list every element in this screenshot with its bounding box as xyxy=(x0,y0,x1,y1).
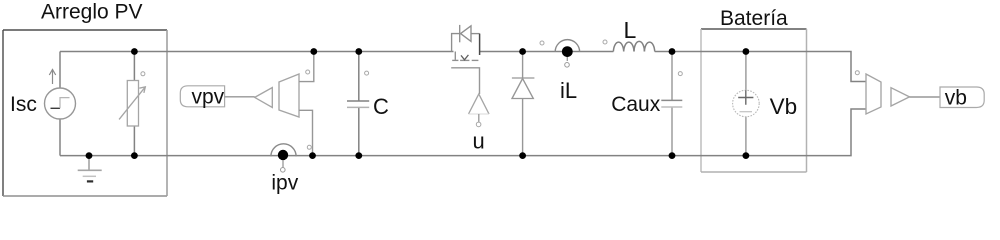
svg-text:vb: vb xyxy=(945,87,967,110)
svg-text:iL: iL xyxy=(560,78,577,103)
svg-text:C: C xyxy=(373,94,389,119)
svg-text:Batería: Batería xyxy=(720,7,788,30)
svg-text:ipv: ipv xyxy=(271,172,298,195)
svg-text:u: u xyxy=(473,129,485,154)
svg-text:Caux: Caux xyxy=(611,93,661,116)
svg-text:Isc: Isc xyxy=(10,93,37,116)
svg-text:vpv: vpv xyxy=(192,86,225,109)
svg-text:Vb: Vb xyxy=(770,94,798,119)
svg-text:L: L xyxy=(624,17,637,43)
svg-text:Arreglo PV: Arreglo PV xyxy=(41,1,143,24)
